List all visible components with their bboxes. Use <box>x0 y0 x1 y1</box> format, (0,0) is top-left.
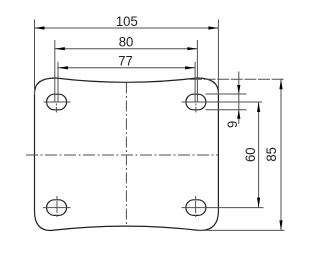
ext line 105 left <box>34 20 36 96</box>
hole TR center mark vertical <box>195 104 197 113</box>
dim 9 line <box>238 72 240 125</box>
ext line 85 top <box>190 78 285 80</box>
svg-text:77: 77 <box>118 53 133 69</box>
vertical center line <box>125 83 127 227</box>
ext line 80 left <box>54 40 56 102</box>
hole BR <box>186 200 206 216</box>
ext line 80 right <box>196 40 198 102</box>
dim 77 arrow right <box>185 66 195 69</box>
dim 9 arrow top (outside, pointing down) <box>237 85 240 94</box>
svg-text:9: 9 <box>224 121 240 128</box>
dim 80 line <box>55 48 198 50</box>
hole BR center line horizontal / ext for 60 bottom <box>182 207 264 209</box>
plate outline <box>35 78 219 231</box>
svg-text:60: 60 <box>242 147 258 162</box>
hole BL center mark vertical <box>56 196 58 219</box>
hole BL center line horizontal <box>43 207 71 209</box>
dim 60 arrow top <box>257 102 260 112</box>
hole TR <box>186 94 206 110</box>
svg-text:80: 80 <box>119 34 134 50</box>
dim 80 arrow left <box>55 47 65 50</box>
dim 85 arrow bottom <box>279 220 282 230</box>
hole BR center mark vertical <box>195 196 197 219</box>
ext line 77 right <box>194 62 196 102</box>
dim 85 arrow top <box>279 79 282 89</box>
hole TL <box>47 94 67 110</box>
ext line 9 top (hole top tangent) <box>206 93 247 95</box>
hole BL <box>47 200 67 216</box>
svg-text:105: 105 <box>116 14 138 30</box>
ext line 77 left <box>57 62 59 102</box>
dim 105 arrow right <box>208 26 218 29</box>
hole TL center mark vertical <box>55 104 57 113</box>
dim 105 line <box>35 27 219 29</box>
svg-text:85: 85 <box>263 147 279 162</box>
ext line 9 bottom (hole bottom tangent) <box>206 109 247 111</box>
ext line 85 bottom <box>197 229 285 231</box>
hole TR center line horizontal / ext for 60 top <box>182 101 263 103</box>
dim 60 line <box>258 102 260 208</box>
dim 77 line <box>58 67 195 69</box>
dim 85 line <box>280 79 282 230</box>
dim 77 arrow left <box>58 66 68 69</box>
dim 60 arrow bottom <box>257 198 260 208</box>
hole TL center line horizontal <box>44 101 71 103</box>
ext line 105 right <box>217 20 219 96</box>
dim 80 arrow right <box>187 47 197 50</box>
dim 9 arrow bottom (outside, pointing up) <box>237 110 240 119</box>
dim 105 arrow left <box>35 26 45 29</box>
horizontal center line <box>26 154 218 156</box>
